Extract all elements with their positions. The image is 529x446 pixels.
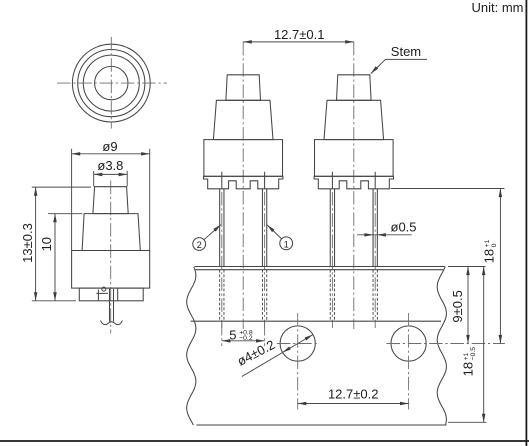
right hole horizontal centerline — [387, 343, 505, 345]
right button right pin root — [374, 172, 376, 189]
side view flange — [79, 288, 143, 301]
right button left pin hidden in panel — [329, 270, 331, 322]
side view mid section — [82, 214, 140, 251]
left button right pin — [261, 189, 263, 267]
right button centerline — [353, 42, 355, 329]
right mounting hole — [391, 326, 426, 361]
left button mid section — [213, 100, 273, 139]
left button right pin centerline — [264, 192, 266, 328]
svg-text:ø9: ø9 — [102, 139, 117, 154]
dimension 9±0.5 line — [467, 267, 469, 344]
side view body — [72, 251, 150, 289]
dimension 5 extension lines — [221, 322, 223, 346]
right button left pin — [329, 189, 331, 267]
dimension ø3.8 line — [94, 173, 128, 175]
panel inner line (pin seating) — [191, 320, 441, 322]
svg-text:10: 10 — [39, 237, 54, 251]
dimension 18+1/-0.5 line — [483, 267, 485, 423]
dimension ø4±0.2 leader — [242, 335, 313, 377]
svg-text:18: 18 — [482, 249, 497, 263]
side view stem — [93, 187, 128, 214]
svg-text:Unit: mm: Unit: mm — [472, 0, 524, 15]
dimension 18+1/0 line — [499, 189, 501, 344]
side view pin — [109, 289, 111, 322]
dimension 10 line — [54, 214, 56, 301]
svg-text:2: 2 — [197, 240, 202, 250]
svg-text:ø0.5: ø0.5 — [391, 220, 417, 235]
dimension 13±0.3 line — [35, 187, 37, 301]
top view vertical centerline — [110, 37, 112, 129]
left hole vertical centerline — [297, 313, 299, 410]
right button right pin centerline — [374, 192, 376, 328]
svg-text:−0.5: −0.5 — [470, 347, 477, 361]
panel top edge lower line — [196, 269, 444, 271]
dimension ø3.8 extension lines — [93, 171, 95, 186]
svg-text:18: 18 — [461, 362, 476, 376]
top view second circle — [78, 50, 145, 117]
right button left pin root — [331, 172, 333, 189]
svg-text:ø3.8: ø3.8 — [97, 158, 123, 173]
side view extension line bottom — [32, 300, 76, 302]
side view pin break squiggle — [101, 321, 123, 325]
right button body — [315, 140, 394, 177]
right button right pin hidden in panel — [372, 270, 374, 322]
left button left pin centerline — [221, 192, 223, 328]
panel left break line — [187, 267, 196, 425]
svg-text:+1: +1 — [463, 352, 470, 360]
top view third circle — [83, 55, 139, 111]
left button flange and skirt — [204, 176, 283, 189]
panel top edge upper line — [195, 266, 445, 268]
side view housing step vertical — [97, 290, 99, 301]
top view outer circle — [72, 44, 150, 122]
svg-text:13±0.3: 13±0.3 — [20, 223, 35, 263]
panel bottom edge — [197, 424, 447, 426]
side view extension line top — [32, 186, 91, 188]
side view housing hole — [102, 287, 106, 291]
label circle 1 leader — [267, 225, 282, 239]
top view stem circle — [95, 66, 128, 99]
left button left pin hidden in panel — [219, 270, 221, 322]
left button left pin — [219, 189, 221, 267]
top view horizontal centerline — [57, 82, 167, 84]
dimension 18+1/-0.5 text — [461, 347, 478, 377]
svg-text:12.7±0.2: 12.7±0.2 — [328, 386, 379, 401]
svg-text:Stem: Stem — [391, 44, 421, 59]
left button left pin root — [221, 172, 223, 189]
right border line — [525, 0, 527, 446]
panel right break line — [437, 267, 446, 425]
extension line flange level — [391, 188, 505, 190]
svg-text:1: 1 — [284, 239, 289, 249]
dimension 5 line — [222, 340, 265, 342]
right button mid section — [324, 100, 384, 139]
svg-text:+1: +1 — [484, 239, 491, 247]
label circle 1 — [280, 237, 293, 250]
right button left pin centerline — [331, 192, 333, 328]
right button stem — [337, 75, 372, 101]
svg-text:12.7±0.1: 12.7±0.1 — [274, 27, 325, 42]
left mounting hole — [280, 326, 315, 361]
label circle 2 — [193, 238, 206, 251]
label circle 2 leader — [204, 225, 221, 240]
dimension 18+1/0 text — [482, 239, 499, 263]
side view housing step horizontal — [96, 292, 108, 294]
label Stem leader — [386, 58, 428, 60]
left button body — [204, 140, 283, 177]
bottom border line — [0, 440, 529, 442]
dimension 12.7±0.2 line — [298, 403, 409, 405]
dimension 12.7±0.1 line — [243, 41, 354, 43]
svg-text:9±0.5: 9±0.5 — [450, 290, 465, 322]
side view extension line mid — [48, 213, 82, 215]
left button right pin hidden in panel — [261, 270, 263, 322]
left button right pin root — [264, 172, 266, 189]
right hole vertical centerline — [408, 313, 410, 410]
left hole horizontal centerline — [277, 343, 319, 345]
side view housing edge — [117, 288, 119, 301]
right button flange and skirt — [314, 176, 393, 189]
right button right pin — [372, 189, 374, 267]
svg-text:0: 0 — [491, 243, 498, 247]
side view vertical centerline — [110, 181, 112, 334]
dimension ø0.5 line — [357, 234, 412, 236]
left button stem — [226, 75, 261, 101]
dimension ø9 line — [72, 153, 150, 155]
left button centerline — [242, 42, 244, 329]
dimension ø9 extension lines — [71, 149, 73, 251]
